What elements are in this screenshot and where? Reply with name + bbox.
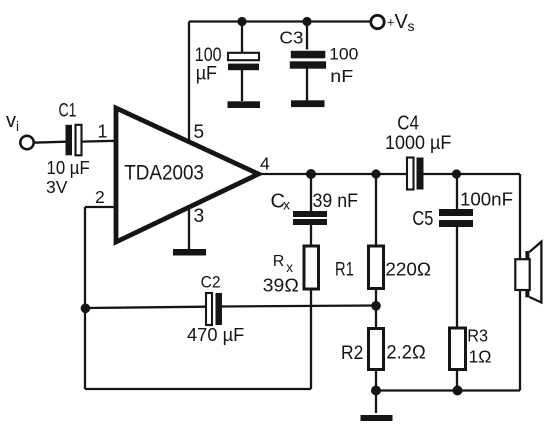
svg-text:C3: C3	[279, 28, 303, 48]
svg-text:R1: R1	[335, 260, 354, 281]
svg-text:V: V	[395, 11, 409, 33]
svg-text:470 µF: 470 µF	[187, 325, 244, 345]
svg-text:+: +	[387, 15, 395, 30]
svg-text:i: i	[16, 119, 19, 134]
svg-text:C5: C5	[412, 207, 433, 230]
svg-text:R: R	[273, 253, 285, 270]
svg-text:s: s	[408, 18, 415, 34]
svg-text:4: 4	[260, 154, 270, 174]
svg-text:39 nF: 39 nF	[313, 190, 359, 212]
svg-text:2: 2	[95, 187, 105, 207]
svg-text:100: 100	[329, 45, 358, 63]
svg-text:220Ω: 220Ω	[385, 260, 431, 280]
svg-text:x: x	[283, 197, 290, 213]
svg-text:x: x	[286, 260, 293, 275]
svg-text:3V: 3V	[46, 177, 68, 197]
svg-text:R2: R2	[341, 343, 363, 364]
svg-text:TDA2003: TDA2003	[124, 162, 204, 185]
svg-text:C2: C2	[201, 273, 221, 291]
svg-text:3: 3	[194, 206, 205, 227]
svg-text:µF: µF	[196, 64, 217, 85]
svg-text:1: 1	[98, 122, 108, 142]
svg-text:C4: C4	[397, 113, 419, 135]
svg-text:C1: C1	[59, 100, 77, 122]
svg-text:nF: nF	[330, 66, 353, 86]
svg-text:100nF: 100nF	[460, 188, 513, 209]
svg-text:1000 µF: 1000 µF	[385, 133, 451, 154]
svg-text:2.2Ω: 2.2Ω	[386, 343, 425, 364]
svg-text:10 µF: 10 µF	[47, 157, 90, 178]
svg-text:R3: R3	[467, 326, 488, 346]
svg-text:39Ω: 39Ω	[263, 275, 299, 296]
svg-text:5: 5	[194, 122, 205, 143]
svg-text:1Ω: 1Ω	[469, 346, 492, 366]
svg-text:v: v	[6, 110, 16, 132]
